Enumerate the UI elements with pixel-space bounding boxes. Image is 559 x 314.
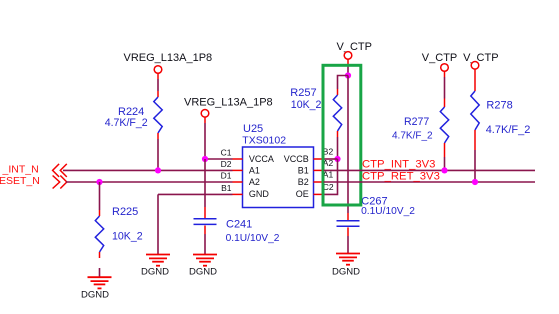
wire CTP_INT_N horizontal: [63, 169, 233, 171]
resistor R278: [471, 91, 479, 150]
wire R225 top: [99, 182, 101, 210]
wire CTP_RESET_N horizontal: [66, 181, 233, 183]
pin GND stub: [233, 193, 243, 195]
pin B2 stub: [314, 181, 324, 183]
svg-text:A2: A2: [249, 177, 260, 187]
svg-text:V_CTP: V_CTP: [422, 52, 457, 64]
svg-text:B1: B1: [298, 165, 309, 175]
junction R224/INT: [155, 167, 161, 173]
svg-text:CTP_INT_3V3: CTP_INT_3V3: [362, 159, 435, 171]
svg-text:D1: D1: [221, 171, 232, 181]
capacitor C267: [337, 221, 360, 227]
wire V_CTP down: [347, 59, 349, 75]
power symbol VREG_L13A_1P8 (U25): [201, 110, 209, 118]
svg-text:DGND: DGND: [332, 267, 360, 278]
resistor R277: [440, 99, 448, 158]
wire VCCA horizontal: [205, 158, 233, 160]
wire R278 bottom: [474, 150, 476, 182]
junction R278/RET_3V3: [472, 179, 478, 185]
junction R225/RESET: [96, 179, 102, 185]
resistor R224: [154, 91, 162, 139]
off-page connector (input) CTP_INT_N: [53, 164, 67, 177]
svg-text:4.7K/F_2: 4.7K/F_2: [392, 131, 433, 142]
highlight box (green): [323, 65, 361, 205]
junction V_CTP: [345, 72, 351, 78]
svg-text:VREG_L13A_1P8: VREG_L13A_1P8: [184, 97, 273, 109]
svg-text:0.1U/10V_2: 0.1U/10V_2: [226, 233, 280, 244]
svg-text:0.1U/10V_2: 0.1U/10V_2: [361, 206, 415, 217]
power symbol VREG_L13A_1P8 (R224): [154, 66, 162, 74]
wire R277 top: [444, 71, 446, 98]
pin VCCB stub: [314, 158, 324, 160]
wire C267 bottom: [347, 227, 349, 253]
wire C241 top: [204, 159, 206, 218]
svg-text:R277: R277: [404, 116, 429, 128]
wire junction down to OE: [324, 159, 338, 194]
svg-text:DGND: DGND: [189, 267, 217, 278]
IC U25 TXS0102 body: [243, 147, 314, 208]
ground DGND (R225): [88, 277, 112, 288]
svg-text:R224: R224: [118, 106, 144, 118]
ground DGND (U25 GND): [146, 255, 170, 266]
svg-text:DGND: DGND: [141, 267, 169, 278]
svg-text:VREG_L13A_1P8: VREG_L13A_1P8: [124, 52, 213, 64]
resistor R225: [95, 210, 103, 258]
power symbol V_CTP (center): [344, 52, 352, 60]
resistor R257: [333, 89, 341, 137]
svg-text:OE: OE: [296, 189, 309, 199]
wire R224 bottom: [157, 139, 159, 170]
wire R278 top: [474, 69, 476, 91]
svg-text:V_CTP: V_CTP: [463, 52, 498, 64]
off-page connector (output) CTP_RESET_N: [53, 176, 67, 189]
ground DGND (C267): [336, 254, 360, 265]
ground DGND (C241): [193, 255, 217, 266]
wire R224 top: [157, 73, 159, 79]
svg-text:VCCB: VCCB: [284, 154, 309, 164]
wire CTP_RET_3V3: [324, 181, 536, 183]
svg-text:4.7K/F_2: 4.7K/F_2: [105, 117, 148, 129]
junction VCCB/R257: [334, 156, 340, 162]
svg-text:V_CTP: V_CTP: [337, 41, 372, 53]
pin A2 stub: [233, 181, 243, 183]
svg-text:R278: R278: [486, 99, 512, 111]
svg-text:B1: B1: [221, 183, 232, 193]
svg-text:B2: B2: [298, 177, 309, 187]
pin B1 stub: [314, 169, 324, 171]
svg-text:DGND: DGND: [81, 290, 109, 301]
svg-text:10K_2: 10K_2: [112, 231, 143, 243]
wire R225 bottom: [99, 268, 101, 277]
power symbol V_CTP (R277): [441, 64, 449, 72]
svg-text:TXS0102: TXS0102: [242, 135, 286, 147]
capacitor C241: [194, 219, 217, 225]
svg-text:_INT_N: _INT_N: [2, 163, 39, 175]
pin OE stub: [314, 193, 324, 195]
svg-text:R225: R225: [112, 206, 138, 218]
junction VCCA: [202, 156, 208, 162]
wire R277 bottom: [444, 157, 446, 170]
wire jog to R257: [338, 76, 349, 90]
svg-text:VCCA: VCCA: [249, 154, 274, 164]
svg-text:CTP_RET_3V3: CTP_RET_3V3: [362, 170, 440, 182]
wire VCCB to junction: [324, 158, 338, 160]
svg-text:A1: A1: [249, 165, 260, 175]
svg-text:C1: C1: [221, 147, 232, 157]
pin VCCA stub: [233, 158, 243, 160]
junction R277/INT_3V3: [441, 167, 447, 173]
wire GND pin to ground: [158, 194, 233, 254]
wire R257 bottom: [337, 137, 339, 159]
wire CTP_INT_3V3: [324, 169, 536, 171]
svg-text:GND: GND: [249, 189, 270, 199]
pin A1 stub: [233, 169, 243, 171]
wire V_CTP down to C267: [347, 76, 349, 221]
svg-text:D2: D2: [221, 159, 232, 169]
svg-text:ESET_N: ESET_N: [0, 175, 40, 187]
svg-text:C241: C241: [226, 219, 252, 231]
svg-text:R257: R257: [290, 87, 316, 99]
svg-text:U25: U25: [243, 123, 263, 135]
svg-text:4.7K/F_2: 4.7K/F_2: [486, 124, 531, 136]
power symbol V_CTP (R278): [471, 62, 479, 70]
wire C241 bottom: [204, 226, 206, 255]
wire VCCA vertical: [204, 117, 206, 159]
svg-text:10K_2: 10K_2: [291, 99, 322, 111]
